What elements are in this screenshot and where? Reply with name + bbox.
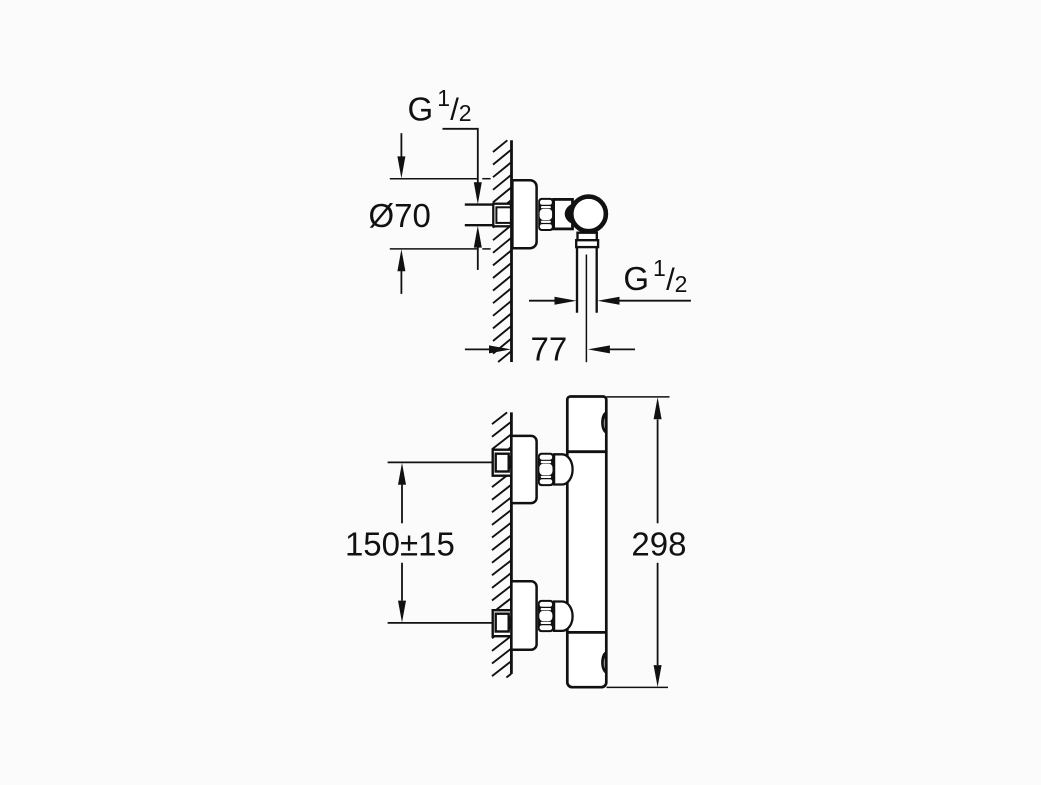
- svg-text:Ø70: Ø70: [369, 197, 431, 234]
- svg-text:G: G: [623, 260, 649, 297]
- dimension 77: right arrow: [610, 348, 636, 350]
- wall hatching (top view): [493, 140, 511, 362]
- svg-text:150±15: 150±15: [345, 525, 455, 562]
- escutcheon rosette (bottom inlet): [511, 581, 536, 649]
- svg-text:298: 298: [631, 525, 686, 562]
- dimension Ø70: bottom arrow: [400, 270, 402, 294]
- dimension G1/2 (outlet): text: [623, 255, 687, 297]
- union nut (top inlet): [538, 453, 554, 486]
- S-union fitting in wall (top inlet): [493, 450, 512, 476]
- union nut (top view): [538, 198, 553, 231]
- label G1/2 (inlet thread): text: [408, 85, 472, 127]
- escutcheon rosette (top view): [512, 180, 536, 248]
- dimension 150±15: dimension line and arrows: [401, 485, 403, 524]
- wall hatching (bottom view): [492, 412, 511, 677]
- dimension 298: dimension line and arrows: [657, 420, 659, 524]
- outlet pipe walls: [576, 247, 578, 313]
- dimension 298: extension lines: [607, 397, 670, 688]
- dimension G1/2 (outlet thread): left arrow: [529, 300, 556, 302]
- outlet centre line: [585, 255, 587, 363]
- svg-text:1: 1: [437, 85, 450, 111]
- S-union square fitting in wall (top view): [493, 204, 511, 227]
- svg-text:2: 2: [675, 271, 688, 297]
- label G1/2 (inlet): opposite arrow: [477, 247, 479, 270]
- dome cap of S-union (top inlet): [554, 454, 573, 484]
- dimension Ø70: top arrow: [400, 133, 402, 158]
- set screw (bottom): [601, 651, 606, 673]
- thermostat knob circle (top view): [571, 197, 606, 232]
- svg-text:2: 2: [459, 100, 472, 126]
- dimension 77: left arrow: [465, 348, 490, 350]
- valve body block (top view): [554, 199, 573, 229]
- union nut (bottom inlet): [538, 600, 554, 632]
- svg-text:1: 1: [653, 255, 666, 281]
- supply line / extension (bottom inlet): [388, 622, 493, 624]
- dimension G1/2 (outlet): right arrow: [619, 300, 691, 302]
- wall surface line (top view): [510, 140, 513, 362]
- svg-text:G: G: [408, 90, 434, 127]
- wall surface line (bottom view): [510, 412, 513, 674]
- svg-text:77: 77: [531, 331, 568, 368]
- supply line / extension (top inlet): [388, 461, 493, 463]
- supply pipe stub lines (top view): [465, 203, 494, 205]
- outlet collar ring: [576, 240, 598, 247]
- shadow crescent behind knob: [565, 202, 594, 225]
- dome cap of S-union (bottom inlet): [554, 602, 573, 631]
- dimension Ø70: extension lines: [390, 179, 491, 249]
- escutcheon rosette (top inlet): [511, 436, 536, 503]
- S-union fitting in wall (bottom inlet): [493, 610, 512, 636]
- valve body column (bottom view): [567, 397, 606, 688]
- outlet neck below knob: [578, 233, 597, 241]
- set screw (top): [601, 412, 606, 434]
- body section line (top): [567, 450, 606, 453]
- label G1/2 (inlet): leader line: [443, 129, 478, 183]
- body section line (bottom): [567, 631, 606, 634]
